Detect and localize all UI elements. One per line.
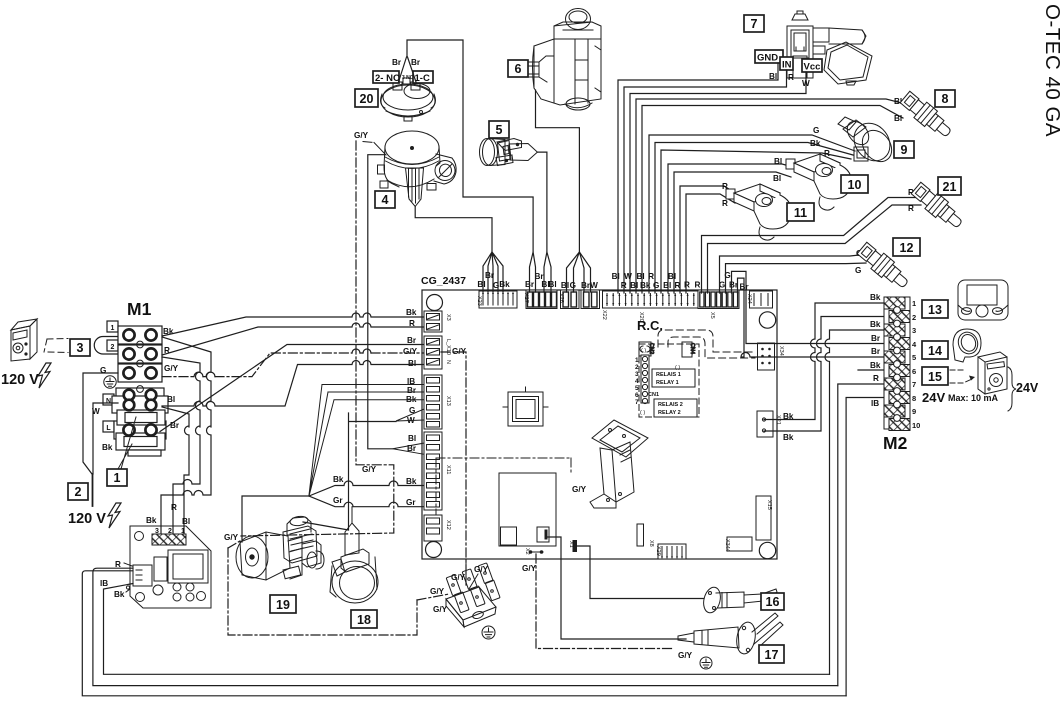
svg-text:CG_2437: CG_2437	[421, 275, 466, 287]
svg-text:Bk: Bk	[114, 590, 125, 599]
svg-text:Bl: Bl	[894, 114, 902, 123]
svg-text:1: 1	[635, 357, 639, 364]
connector X34	[758, 343, 775, 370]
svg-text:12: 12	[900, 241, 914, 255]
top connector X23	[479, 291, 517, 308]
wire M2 terminal 6 stub	[858, 369, 884, 371]
M1 N L terminals	[123, 390, 156, 436]
svg-text:Br: Br	[407, 386, 417, 395]
svg-text:10: 10	[848, 178, 862, 192]
box 2 (supply)	[68, 483, 88, 500]
terminal box N	[103, 394, 114, 405]
svg-text:Bk: Bk	[333, 475, 344, 484]
wires to sensor 9	[649, 135, 855, 293]
svg-text:X29: X29	[655, 546, 661, 556]
M1 fuse holder 1	[117, 410, 165, 425]
box 15	[922, 367, 948, 385]
sensor 5	[480, 139, 538, 166]
svg-text:L: L	[106, 425, 111, 432]
svg-text:G/Y: G/Y	[678, 651, 693, 660]
svg-text:Bl: Bl	[630, 281, 638, 290]
top connector X24	[750, 291, 773, 308]
wire Bk M1 row1 to X3 (with hops)	[162, 313, 423, 336]
svg-text:X12: X12	[445, 520, 451, 530]
X2 jumper	[529, 550, 544, 554]
earth symbol at M1	[104, 376, 116, 388]
box Vcc	[802, 59, 822, 72]
svg-text:2: 2	[75, 485, 82, 499]
wire pump to X17	[536, 90, 591, 292]
box GND	[755, 50, 783, 63]
dash-dot earth run to bracket	[436, 458, 571, 515]
svg-text:Br: Br	[411, 58, 421, 67]
svg-text:G/Y: G/Y	[430, 587, 445, 596]
wire M2 terminal 3 down	[825, 330, 884, 674]
svg-text:Bl: Bl	[408, 359, 416, 368]
svg-text:G/Y: G/Y	[572, 485, 587, 494]
M1 terminal rows	[112, 326, 168, 439]
box 10	[841, 175, 868, 193]
svg-text:G: G	[855, 266, 861, 275]
bus wire G/Y fan down to valve	[241, 141, 394, 536]
svg-text:Bl: Bl	[663, 281, 671, 290]
relay 2 box	[654, 399, 697, 417]
svg-text:Bk: Bk	[406, 477, 417, 486]
svg-text:2: 2	[912, 313, 916, 322]
svg-text:9: 9	[912, 407, 916, 416]
svg-text:Bk: Bk	[499, 280, 510, 289]
box 17	[759, 645, 784, 663]
top connector X17	[526, 290, 557, 309]
svg-text:G/Y: G/Y	[433, 605, 448, 614]
relay pin column 1-7	[641, 355, 649, 404]
svg-text:3: 3	[912, 326, 916, 335]
svg-text:R: R	[684, 281, 690, 290]
svg-text:Gr: Gr	[406, 498, 416, 507]
M2 terminal block	[884, 297, 910, 431]
svg-text:G: G	[653, 281, 659, 290]
connector X344	[727, 537, 752, 551]
wire Bl M1 rowN to X10 (with hops)	[162, 361, 423, 407]
svg-text:G/Y: G/Y	[224, 533, 239, 542]
svg-text:lB: lB	[100, 579, 108, 588]
svg-text:R: R	[722, 199, 728, 208]
svg-text:20: 20	[360, 92, 374, 106]
PCB corner hole bottom-left	[426, 542, 442, 558]
PCB board CG_2437 outline	[422, 290, 777, 559]
NTC sensor 21	[910, 180, 967, 232]
svg-text:M2: M2	[883, 433, 908, 453]
box 3	[70, 339, 90, 356]
svg-text:1: 1	[912, 299, 916, 308]
relay 1 box	[652, 369, 695, 387]
svg-text:Br: Br	[871, 347, 881, 356]
svg-text:X24: X24	[746, 294, 752, 304]
svg-text:Bk: Bk	[146, 516, 157, 525]
svg-text:X5: X5	[709, 312, 715, 319]
gas valve 19	[236, 515, 324, 580]
enclosure dash-dot around 19 18	[228, 548, 417, 635]
ignition board	[130, 526, 211, 608]
clip sensor (14)	[953, 329, 981, 362]
M1 fuse lower tab	[128, 450, 161, 456]
bus wire 4	[303, 413, 396, 530]
box 9	[894, 141, 914, 158]
svg-text:G: G	[570, 281, 576, 290]
svg-text:Bk: Bk	[783, 433, 794, 442]
wire supply down	[92, 474, 94, 506]
svg-text:Bl: Bl	[548, 280, 556, 289]
bus wire 2	[368, 155, 393, 449]
X8 element	[637, 524, 644, 546]
svg-text:G/Y: G/Y	[164, 364, 179, 373]
svg-text:6: 6	[515, 62, 522, 76]
metal bracket	[590, 420, 648, 508]
svg-text:O-TEC 40 GA: O-TEC 40 GA	[1041, 4, 1064, 137]
svg-text:CN4: CN4	[689, 343, 695, 354]
ignition electrode 16	[701, 585, 777, 614]
component 7 flue sensor	[787, 11, 872, 85]
wire M2 terminal 4 to X5	[732, 271, 885, 343]
box 8	[935, 90, 955, 107]
PCB corner hole top-left	[427, 295, 443, 311]
igniter wire Bk M1 to connector	[161, 337, 211, 534]
wire comp18 to junction	[351, 507, 353, 523]
NTC sensor 9	[838, 116, 898, 168]
dashed link thermostat to box 3	[44, 339, 68, 353]
wire G to supply	[83, 373, 118, 474]
svg-text:2- NC: 2- NC	[375, 73, 400, 84]
svg-text:4: 4	[635, 378, 639, 385]
PCB corner hole bottom-right	[759, 542, 775, 558]
lightning bolt bottom	[108, 503, 121, 528]
svg-text:6: 6	[635, 392, 639, 399]
bottom bus wire 2	[93, 568, 838, 685]
svg-text:Bl: Bl	[408, 434, 416, 443]
wires to clamp 11	[680, 186, 737, 293]
PCB top labels row	[477, 271, 749, 292]
svg-text:120 V: 120 V	[1, 372, 39, 388]
connector X3	[424, 311, 442, 332]
wire Gr row junction to X11	[309, 496, 423, 507]
wire Bk row junction to X11	[309, 481, 423, 496]
svg-text:19: 19	[276, 598, 290, 612]
valve left wire	[242, 496, 309, 542]
top connector X22	[581, 290, 600, 309]
svg-text:7: 7	[912, 380, 916, 389]
box 5	[489, 121, 509, 138]
box 18	[351, 610, 377, 628]
connector X15	[756, 496, 771, 540]
svg-text:X26: X26	[558, 293, 564, 303]
top connector X20	[603, 291, 700, 308]
svg-text:Bk: Bk	[870, 320, 881, 329]
svg-text:IN: IN	[782, 60, 792, 71]
box 19	[270, 595, 296, 613]
wire M2 terminal 8 down	[846, 398, 884, 696]
svg-text:( ): ( )	[675, 365, 680, 371]
svg-text:X1: X1	[568, 541, 574, 548]
svg-text:Vcc: Vcc	[804, 62, 821, 73]
svg-text:X3: X3	[445, 314, 451, 321]
svg-text:X344: X344	[724, 539, 730, 552]
svg-text:7: 7	[751, 17, 758, 31]
svg-text:24V: 24V	[922, 390, 945, 405]
wire M2 terminal 5 to X24	[738, 278, 885, 357]
svg-text:R: R	[171, 503, 177, 512]
svg-text:W: W	[624, 272, 632, 281]
brace 24V	[1008, 367, 1016, 411]
wire sensor 5 to X17	[537, 152, 551, 292]
svg-text:Br: Br	[407, 336, 417, 345]
svg-text:N: N	[445, 360, 451, 364]
svg-text:Br: Br	[392, 58, 402, 67]
spark transformer big box	[499, 473, 556, 546]
connector X10	[424, 336, 442, 369]
transformer square	[503, 387, 548, 426]
component 18	[330, 523, 378, 603]
svg-text:Bk: Bk	[102, 443, 113, 452]
svg-text:8: 8	[912, 394, 916, 403]
PCB corner hole top-right	[759, 312, 775, 328]
connector X12	[424, 515, 442, 541]
connector CN4	[682, 342, 695, 357]
svg-text:14: 14	[928, 344, 942, 358]
svg-text:G/Y: G/Y	[362, 465, 377, 474]
svg-text:M1: M1	[127, 299, 152, 319]
svg-text:RELAY 1: RELAY 1	[656, 380, 679, 386]
clamp sensor 11	[726, 184, 791, 240]
box IN	[780, 57, 793, 70]
svg-text:RELAIS 1: RELAIS 1	[656, 372, 681, 378]
svg-text:R: R	[695, 281, 701, 290]
connector X29	[658, 544, 686, 559]
svg-text:Bk: Bk	[870, 293, 881, 302]
box 12	[893, 238, 920, 256]
svg-text:X15: X15	[766, 500, 772, 510]
box 13	[922, 300, 948, 318]
wire X21 to M2 terminal 2	[764, 317, 884, 432]
svg-text:6: 6	[912, 367, 916, 376]
svg-text:G/Y: G/Y	[522, 564, 537, 573]
svg-text:N: N	[106, 398, 111, 405]
loop box3 to M1 rows 1-2	[94, 337, 118, 355]
dash-dot G/Y label to fan	[363, 142, 374, 143]
svg-text:17: 17	[765, 648, 779, 662]
svg-text:RELAY 2: RELAY 2	[658, 410, 681, 416]
wire G/Y pcb to strip	[466, 559, 478, 589]
box 7	[744, 15, 764, 32]
fan out X11 Bl Br	[393, 443, 423, 454]
wire fan to X23	[415, 207, 503, 293]
svg-text:Bl: Bl	[637, 272, 645, 281]
room unit display (13)	[958, 280, 1008, 320]
svg-text:18: 18	[357, 613, 371, 627]
box 2-NC	[373, 71, 399, 83]
svg-text:CN1: CN1	[648, 392, 659, 398]
earth terminal strip	[446, 563, 500, 627]
wire M2 terminal 7 down	[838, 384, 884, 686]
svg-text:R: R	[908, 204, 914, 213]
dashed arrow box15 to dial	[950, 370, 972, 383]
svg-text:X8: X8	[648, 540, 654, 547]
svg-text:Br: Br	[871, 334, 881, 343]
connector X13	[424, 375, 442, 429]
svg-text:3: 3	[77, 341, 84, 355]
svg-text:lB: lB	[871, 399, 879, 408]
box 20	[355, 89, 378, 107]
svg-text:3: 3	[635, 371, 639, 378]
box 6	[508, 60, 528, 77]
fan 4	[378, 131, 458, 207]
earth symbol electrode 17	[700, 657, 712, 669]
X1 terminal	[573, 540, 578, 552]
svg-text:9: 9	[901, 143, 908, 157]
wires to sensor 8	[636, 99, 905, 293]
svg-text:Bl: Bl	[774, 157, 782, 166]
svg-text:1: 1	[111, 325, 115, 332]
svg-text:1: 1	[114, 471, 121, 485]
wire Br M1 rowL to X10 diagonal	[160, 345, 423, 432]
svg-text:CN2: CN2	[648, 343, 654, 354]
svg-text:10: 10	[912, 421, 920, 430]
igniter wire Bl M1 to connector	[162, 407, 189, 534]
svg-text:Bk: Bk	[810, 139, 821, 148]
svg-text:Bl: Bl	[668, 272, 676, 281]
G/Y earth dash-dot X10 to earth strip	[441, 352, 466, 585]
svg-text:Bl: Bl	[773, 174, 781, 183]
svg-text:X17: X17	[523, 293, 529, 303]
box 4	[375, 191, 395, 208]
svg-text:R: R	[788, 73, 794, 82]
svg-text:X23: X23	[476, 296, 482, 306]
wire spark generator to electrode 17	[548, 537, 686, 639]
connector X11	[424, 432, 442, 510]
fan out X13 G W	[396, 409, 424, 421]
pressure switch 20	[381, 78, 436, 121]
connector X21 two pin	[757, 411, 773, 437]
svg-text:7: 7	[635, 399, 639, 406]
svg-text:R: R	[873, 374, 879, 383]
24V transformer dial unit (15)	[978, 352, 1007, 394]
top connector X5	[698, 290, 739, 309]
svg-text:120 V: 120 V	[68, 511, 106, 527]
clamp sensor 10	[786, 154, 851, 210]
svg-text:5: 5	[635, 385, 639, 392]
svg-text:21: 21	[943, 180, 957, 194]
box 1-C	[413, 71, 433, 83]
svg-text:X2: X2	[524, 548, 530, 555]
wire R M1 row2 to X3 (with hops)	[162, 323, 423, 355]
svg-text:Bl: Bl	[182, 517, 190, 526]
box 11	[787, 203, 814, 221]
svg-text:RELAIS 2: RELAIS 2	[658, 402, 683, 408]
svg-text:G/Y: G/Y	[403, 347, 418, 356]
svg-text:2: 2	[635, 364, 639, 371]
wires to clamp 10	[668, 164, 793, 293]
svg-text:X34: X34	[778, 346, 784, 356]
svg-text:X22: X22	[601, 310, 607, 320]
svg-text:16: 16	[766, 595, 780, 609]
connector CN2 CN3	[639, 342, 654, 356]
svg-text:Bl: Bl	[477, 280, 485, 289]
bottom bus wire 1	[104, 584, 830, 675]
svg-text:( ): ( )	[641, 348, 646, 354]
svg-text:Max: 10 mA: Max: 10 mA	[948, 393, 999, 403]
box 16	[761, 593, 784, 610]
svg-text:X11: X11	[445, 465, 451, 474]
svg-text:24V: 24V	[1016, 381, 1039, 395]
wire X21 to M2 terminal 1	[764, 303, 884, 420]
svg-text:Bl: Bl	[167, 395, 175, 404]
svg-text:5: 5	[496, 123, 503, 137]
svg-text:8: 8	[942, 92, 949, 106]
svg-text:Br: Br	[170, 421, 180, 430]
M2 terminal numbers 1-10	[912, 299, 920, 430]
svg-text:Bk: Bk	[870, 361, 881, 370]
svg-text:5: 5	[912, 353, 916, 362]
terminal small box 1	[107, 321, 118, 332]
svg-text:G: G	[100, 366, 106, 375]
igniter wire R M1 to connector	[162, 357, 200, 534]
wires to sensor 12	[720, 255, 867, 294]
relay zone dashed outline	[639, 344, 699, 417]
NTC sensor 8	[899, 89, 956, 141]
svg-text:( ): ( )	[640, 410, 645, 416]
ignition electrode 17	[678, 613, 783, 655]
room thermostat	[11, 319, 37, 361]
earth strip dash-dot left link	[417, 594, 449, 600]
NTC sensor 12	[856, 240, 913, 292]
svg-text:X13: X13	[445, 396, 451, 406]
wire N to supply	[93, 403, 118, 474]
box 14	[922, 341, 948, 359]
svg-text:13: 13	[928, 303, 942, 317]
G/Y X2 down to electrode 17 area dash-dot	[536, 554, 672, 649]
R.C. dashed loop to CN connectors	[658, 330, 755, 352]
svg-text:G: G	[813, 126, 819, 135]
lightning bolt top	[38, 363, 51, 388]
wire G/Y M1 to X10 dash-dot (with hops)	[162, 353, 423, 377]
svg-text:G/Y: G/Y	[474, 565, 489, 574]
wires to sensor 21	[702, 198, 922, 294]
svg-text:G/Y: G/Y	[451, 573, 466, 582]
svg-text:GND: GND	[757, 53, 778, 64]
wire pair pressure switch to X17	[399, 40, 536, 292]
svg-text:2: 2	[111, 344, 115, 351]
terminal box L	[103, 421, 114, 432]
svg-text:11: 11	[794, 206, 807, 220]
top connector X26	[561, 290, 580, 309]
box 1 (fuses)	[107, 469, 127, 486]
svg-text:Bk: Bk	[406, 308, 417, 317]
svg-text:R.C.: R.C.	[637, 318, 663, 333]
svg-text:Gr: Gr	[333, 496, 343, 505]
terminal small box 2	[107, 340, 118, 351]
box 21	[938, 177, 961, 195]
svg-text:Bl: Bl	[561, 281, 569, 290]
svg-text:G/Y: G/Y	[354, 131, 369, 140]
svg-text:3 NO: 3 NO	[402, 75, 414, 81]
callout lines for box 1	[118, 417, 136, 469]
M1 fuse holder 2	[116, 433, 165, 450]
svg-text:15: 15	[928, 370, 942, 384]
svg-text:4: 4	[382, 193, 389, 207]
junction harness to X13 lB Br Bk	[309, 385, 423, 497]
earth symbol at strip	[482, 626, 495, 639]
svg-text:1-C: 1-C	[415, 73, 430, 84]
wire X1 to electrode 16	[577, 546, 704, 599]
